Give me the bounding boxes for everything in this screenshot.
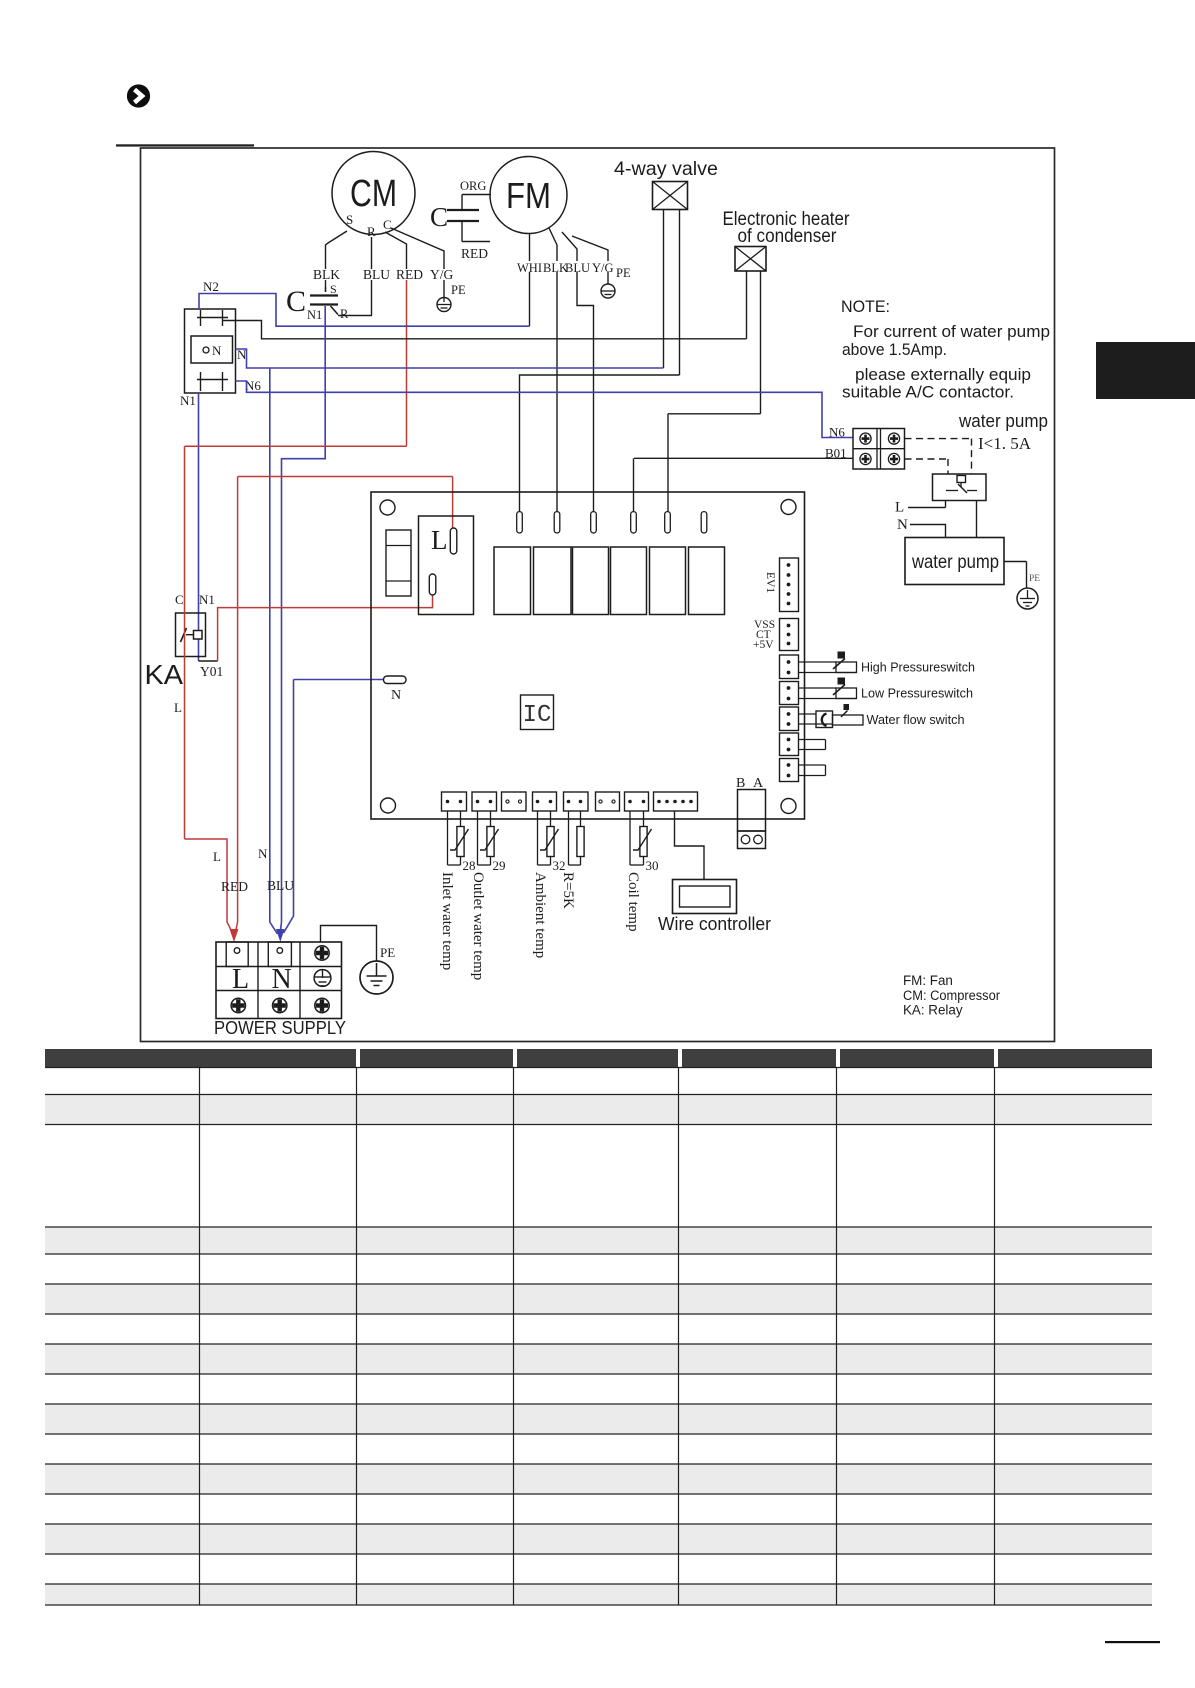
- svg-text:S: S: [330, 282, 337, 296]
- svg-text:N2: N2: [203, 279, 219, 294]
- svg-text:L: L: [213, 849, 221, 864]
- svg-text:Coil temp: Coil temp: [625, 872, 641, 932]
- svg-text:32: 32: [553, 858, 566, 873]
- svg-text:4-way valve: 4-way valve: [614, 158, 718, 180]
- svg-text:RED: RED: [461, 246, 488, 261]
- svg-text:Y/G: Y/G: [430, 267, 454, 282]
- svg-text:POWER SUPPLY: POWER SUPPLY: [214, 1018, 346, 1038]
- svg-text:R: R: [367, 224, 376, 239]
- svg-text:of condenser: of condenser: [738, 225, 837, 247]
- svg-text:CM: CM: [350, 173, 397, 215]
- svg-text:R: R: [340, 307, 349, 321]
- svg-text:PE: PE: [1029, 574, 1040, 584]
- svg-text:I<1. 5A: I<1. 5A: [978, 434, 1032, 453]
- svg-text:water pump: water pump: [911, 551, 999, 573]
- svg-text:Outlet water temp: Outlet water temp: [470, 872, 486, 980]
- svg-text:N: N: [258, 846, 268, 861]
- svg-text:C: C: [430, 202, 448, 232]
- svg-text:N: N: [272, 964, 292, 995]
- svg-text:N1: N1: [307, 308, 322, 322]
- svg-text:S: S: [346, 212, 353, 227]
- svg-text:C: C: [383, 217, 392, 232]
- svg-text:FM: FM: [506, 175, 551, 216]
- svg-text:NOTE:: NOTE:: [841, 297, 890, 316]
- svg-text:+5V: +5V: [753, 639, 774, 651]
- svg-text:EV1: EV1: [764, 572, 776, 593]
- svg-text:N1: N1: [199, 592, 215, 607]
- svg-text:L: L: [174, 700, 182, 715]
- svg-text:Low Pressureswitch: Low Pressureswitch: [861, 686, 973, 701]
- svg-text:N1: N1: [180, 393, 196, 408]
- svg-text:L: L: [232, 964, 249, 995]
- svg-text:please externally equip: please externally equip: [855, 365, 1031, 384]
- svg-text:PE: PE: [616, 266, 631, 280]
- svg-text:suitable A/C contactor.: suitable A/C contactor.: [842, 383, 1014, 402]
- svg-text:N6: N6: [245, 378, 261, 393]
- svg-text:BLK: BLK: [313, 267, 340, 282]
- svg-text:High Pressureswitch: High Pressureswitch: [861, 660, 975, 675]
- svg-text:C: C: [286, 285, 306, 318]
- svg-text:29: 29: [493, 858, 506, 873]
- svg-text:water pump: water pump: [958, 410, 1048, 431]
- svg-text:C: C: [175, 592, 184, 607]
- svg-text:BLU: BLU: [363, 267, 390, 282]
- svg-text:PE: PE: [451, 283, 466, 297]
- svg-text:Wire controller: Wire controller: [658, 914, 771, 934]
- svg-text:N: N: [212, 343, 222, 358]
- svg-text:RED: RED: [396, 267, 423, 282]
- svg-text:Inlet water temp: Inlet water temp: [439, 872, 455, 970]
- svg-text:Ambient temp: Ambient temp: [532, 872, 548, 958]
- svg-text:ORG: ORG: [460, 179, 486, 193]
- svg-text:28: 28: [463, 858, 476, 873]
- svg-text:BLU: BLU: [267, 878, 294, 893]
- svg-text:N6: N6: [829, 425, 845, 440]
- svg-text:For current of water pump: For current of water pump: [853, 322, 1050, 341]
- svg-text:Y/G: Y/G: [592, 261, 614, 275]
- svg-text:KA: KA: [145, 659, 184, 690]
- svg-text:Water flow switch: Water flow switch: [867, 712, 965, 727]
- svg-text:N: N: [897, 517, 908, 533]
- svg-text:KA: Relay: KA: Relay: [903, 1003, 963, 1018]
- svg-text:IC: IC: [523, 702, 552, 729]
- svg-text:R=5K: R=5K: [560, 872, 576, 909]
- svg-text:CM: Compressor: CM: Compressor: [903, 988, 1001, 1003]
- svg-text:L: L: [431, 525, 448, 555]
- svg-text:above 1.5Amp.: above 1.5Amp.: [842, 340, 947, 359]
- svg-text:RED: RED: [221, 879, 248, 894]
- svg-text:L: L: [895, 500, 904, 516]
- svg-text:30: 30: [646, 858, 659, 873]
- svg-text:PE: PE: [380, 945, 395, 960]
- svg-text:FM: Fan: FM: Fan: [903, 973, 953, 988]
- svg-text:Y01: Y01: [200, 664, 223, 679]
- svg-text:N: N: [391, 688, 401, 703]
